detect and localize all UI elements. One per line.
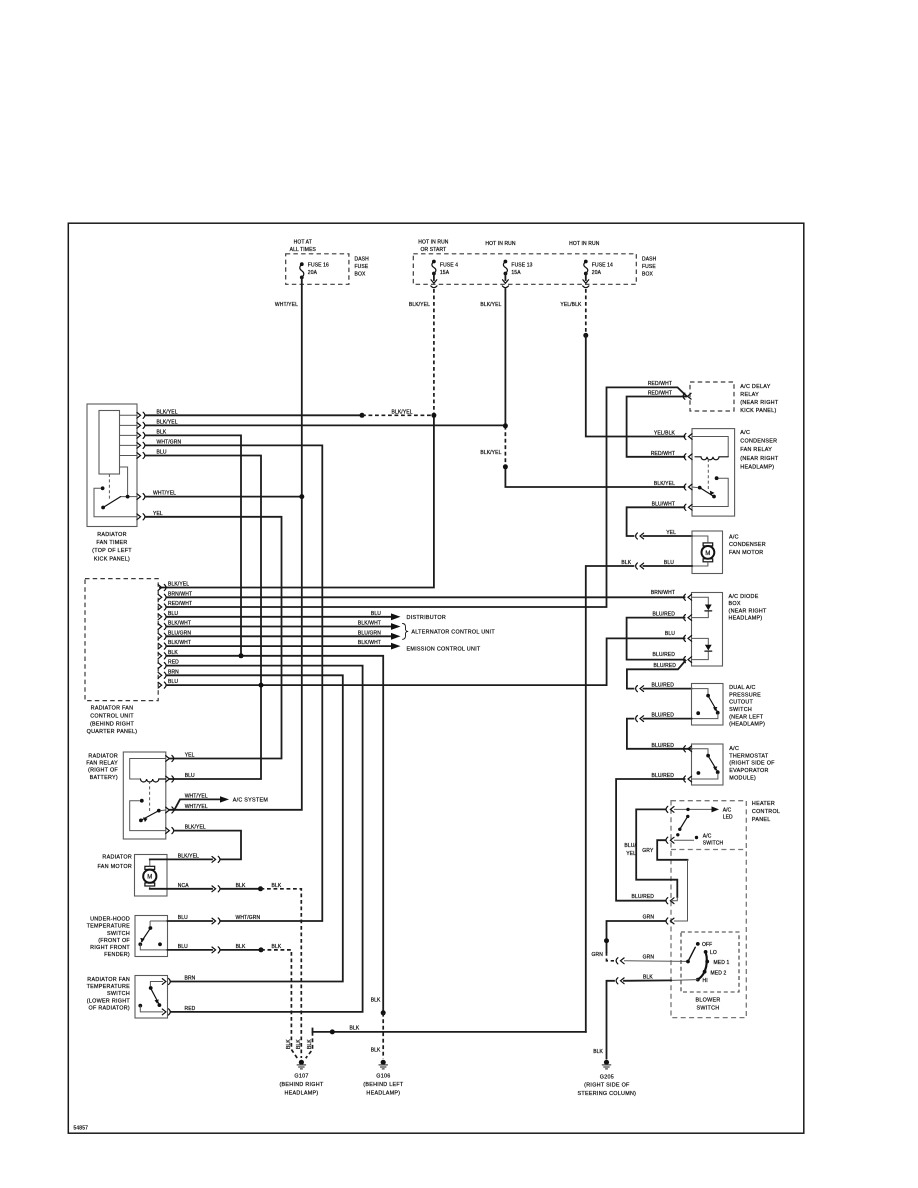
svg-text:BLK/YEL: BLK/YEL — [480, 450, 501, 456]
svg-text:(RIGHT SIDE OF: (RIGHT SIDE OF — [584, 1083, 630, 1089]
svg-text:FAN RELAY: FAN RELAY — [86, 761, 118, 767]
wire timer YEL row7 down to relay YEL — [146, 517, 282, 759]
svg-text:RELAY: RELAY — [740, 392, 759, 398]
relay lever arrowhead — [143, 817, 147, 822]
relay armature dashed — [149, 781, 151, 811]
svg-text:DASH: DASH — [642, 257, 657, 263]
svg-text:BLU/RED: BLU/RED — [651, 713, 674, 719]
junction dot BLU row11 with timer BLU vertical — [259, 683, 264, 688]
svg-text:HI: HI — [703, 978, 708, 984]
blower common dot — [686, 960, 690, 964]
svg-text:A/C: A/C — [740, 430, 750, 436]
pressure switch internals — [692, 689, 709, 694]
arrow row6 — [391, 633, 401, 640]
svg-text:BLU: BLU — [664, 560, 674, 566]
timer internal pin wires — [120, 415, 138, 455]
svg-text:LED: LED — [723, 814, 733, 820]
svg-text:A/C: A/C — [703, 833, 712, 839]
svg-text:BLK: BLK — [307, 1039, 313, 1049]
wire to thermostat top — [627, 719, 692, 749]
condenser relay coil — [695, 457, 728, 460]
svg-text:GRY: GRY — [642, 848, 654, 854]
svg-text:M: M — [705, 551, 710, 557]
svg-text:(TOP OF LEFT: (TOP OF LEFT — [92, 548, 132, 554]
radiator fan motor box — [135, 855, 168, 897]
svg-text:BOX: BOX — [355, 271, 366, 277]
wire GRN thin to blower common — [624, 960, 687, 963]
svg-text:FUSE 13: FUSE 13 — [511, 263, 532, 269]
thermostat pin connectors — [684, 746, 692, 752]
inline connector pressure top — [636, 686, 644, 692]
svg-text:RED/WHT: RED/WHT — [648, 391, 672, 397]
A/C switch lever — [680, 817, 688, 829]
wire cu BLU row11 to A/C diode box BLU — [167, 638, 685, 685]
wire BLU/YEL tail into BLU/RED connector — [672, 897, 677, 901]
svg-text:MED 2: MED 2 — [711, 971, 727, 977]
A/C condenser fan relay box — [692, 429, 735, 516]
svg-text:STEERING COLUMN): STEERING COLUMN) — [578, 1091, 637, 1097]
svg-text:BLK/YEL: BLK/YEL — [392, 409, 413, 415]
svg-text:BLU/: BLU/ — [624, 843, 636, 849]
wire RED/WHT branch to condenser relay coil — [627, 397, 687, 457]
brace to alternator control unit — [403, 624, 409, 640]
wire fuse 13 to A/C condenser fan relay BLK/YEL — [505, 467, 684, 487]
connector under-hood row1 — [212, 918, 220, 924]
svg-text:BLK: BLK — [286, 1039, 292, 1049]
timer switch contact dots — [101, 506, 105, 510]
svg-text:SWITCH: SWITCH — [729, 707, 752, 713]
fuse 13 15A — [504, 260, 508, 264]
svg-text:GRN: GRN — [643, 915, 655, 921]
radiator fan timer box — [87, 404, 137, 527]
svg-text:BRN/WHT: BRN/WHT — [651, 590, 675, 596]
connector at fuse 4 box exit — [433, 274, 435, 281]
wire cu BLK/WHT row7 with arrow — [167, 645, 391, 647]
dash fuse box right (dashed) — [413, 254, 636, 284]
arrow row5 — [391, 623, 401, 630]
arrow to A/C system — [220, 796, 229, 802]
radiator fan relay box — [123, 752, 166, 839]
svg-text:BLU: BLU — [178, 944, 188, 950]
connector motor BLK/YEL — [212, 856, 220, 862]
svg-text:SWITCH: SWITCH — [107, 991, 130, 997]
A/C thermostat box — [692, 744, 724, 785]
svg-text:BLK: BLK — [593, 1049, 603, 1055]
wire relay BLK/YEL down to radiator fan motor — [174, 831, 241, 860]
wire cu BRN/WHT row2 to A/C diode box — [167, 596, 685, 598]
wire NCA BLK to splice — [221, 888, 261, 890]
arrow to distributor — [391, 613, 401, 620]
blower contact arc LO-HI — [698, 952, 707, 980]
fuse 4 15A — [432, 260, 436, 264]
wire BLU/RED into pressure switch — [644, 688, 692, 690]
connector at fuse 14 box exit — [585, 274, 587, 281]
svg-text:G205: G205 — [600, 1075, 614, 1081]
relay internal switch lever — [141, 811, 159, 821]
svg-text:BLU: BLU — [665, 631, 675, 637]
thermostat internals — [692, 749, 709, 754]
connector heater GRN pin — [666, 918, 674, 924]
svg-text:RADIATOR FAN: RADIATOR FAN — [87, 977, 130, 983]
wire NCA BLK dashed to G107 — [261, 889, 302, 1058]
diode symbol 2 — [705, 645, 712, 651]
wire fuse 13 dashed segment — [504, 426, 506, 467]
wire BLU/RED thermostat to heater control panel — [616, 779, 684, 901]
diode internal wires upper — [692, 597, 709, 617]
svg-text:FUSE 16: FUSE 16 — [308, 263, 329, 269]
junction dot uh BLK splice — [259, 947, 264, 952]
svg-text:A/C: A/C — [723, 807, 732, 813]
svg-text:HEADLAMP): HEADLAMP) — [366, 1090, 400, 1096]
junction dot WHT/YEL at fuse16 line — [299, 494, 304, 499]
svg-text:BLK/YEL: BLK/YEL — [178, 853, 199, 859]
wire BLU/RED loop pins2-4 — [627, 618, 685, 660]
diode symbol 1 — [705, 605, 712, 611]
border frame — [68, 223, 804, 1133]
connector motor NCA — [212, 886, 220, 892]
wire under-hood BLU row2 — [168, 949, 213, 951]
GRY internal drop to GRN connector — [674, 860, 688, 921]
svg-text:(BEHIND LEFT: (BEHIND LEFT — [363, 1082, 404, 1088]
wire BLK to splice — [221, 949, 261, 951]
svg-text:A/C: A/C — [729, 746, 739, 752]
wire fuse 4 solid down to control unit row1 — [160, 415, 434, 587]
wire fuse 14 to A/C condenser fan relay YEL/BLK — [586, 335, 685, 436]
svg-text:YEL/BLK: YEL/BLK — [654, 431, 676, 437]
A/C delay relay box (dashed) — [690, 382, 734, 411]
svg-text:MED 1: MED 1 — [714, 960, 730, 966]
wire BLU from motor to connector — [644, 565, 693, 567]
junction dot fuse13 splice — [503, 464, 508, 469]
svg-text:BLK: BLK — [371, 1048, 381, 1054]
fuse 14 20A — [584, 260, 588, 264]
dash fuse box left (dashed) — [286, 254, 349, 284]
motor brush caps — [145, 866, 155, 869]
wire cu RED/WHT row3 up to A/C delay relay and coil — [167, 387, 687, 607]
timer internal output to switch junction — [120, 467, 138, 497]
connector A/C delay relay pin — [683, 393, 691, 399]
svg-text:FUSE 4: FUSE 4 — [440, 263, 458, 269]
svg-text:BLU/RED: BLU/RED — [651, 743, 674, 749]
diode internal wires lower — [692, 638, 709, 659]
svg-text:TEMPERATURE: TEMPERATURE — [87, 984, 131, 990]
svg-text:PRESSURE: PRESSURE — [729, 692, 761, 698]
svg-text:RADIATOR: RADIATOR — [88, 753, 118, 759]
svg-text:EVAPORATOR: EVAPORATOR — [729, 768, 768, 774]
svg-text:A/C SYSTEM: A/C SYSTEM — [233, 798, 269, 804]
svg-text:(HEADLAMP): (HEADLAMP) — [729, 722, 765, 728]
svg-text:OF RADIATOR): OF RADIATOR) — [89, 1006, 131, 1012]
wire YEL into motor — [644, 535, 693, 537]
under-hood temperature switch box — [135, 916, 168, 957]
junction dot bottom BLK splice — [330, 1029, 335, 1034]
svg-text:15A: 15A — [440, 270, 450, 276]
svg-text:BLK: BLK — [296, 1039, 302, 1049]
condenser relay internal contact wires — [692, 478, 728, 506]
svg-text:(FRONT OF: (FRONT OF — [98, 938, 130, 944]
svg-text:CUTOUT: CUTOUT — [729, 700, 753, 706]
heater control panel box (dashed) — [671, 801, 746, 1018]
radiator fan control unit box (dashed) — [85, 579, 158, 701]
svg-text:BLK/YEL: BLK/YEL — [409, 302, 430, 308]
svg-text:DUAL A/C: DUAL A/C — [729, 685, 756, 691]
motor internal leads — [149, 859, 151, 888]
dot on LED line — [686, 808, 689, 811]
svg-text:DISTRIBUTOR: DISTRIBUTOR — [407, 615, 447, 621]
condenser motor brush caps — [703, 543, 713, 546]
svg-text:BLU/GRN: BLU/GRN — [358, 630, 381, 636]
svg-text:FENDER): FENDER) — [104, 952, 130, 958]
svg-text:THERMOSTAT: THERMOSTAT — [729, 753, 769, 759]
wire BLK horizontal to G107 (from A/C condenser fan motor BLK) — [313, 1029, 586, 1032]
svg-text:UNDER-HOOD: UNDER-HOOD — [90, 917, 130, 923]
timer internal switch lever — [103, 497, 121, 508]
relay internal YEL pin wire to coil — [130, 759, 166, 780]
svg-text:BLU: BLU — [371, 611, 381, 617]
svg-text:15A: 15A — [511, 270, 521, 276]
radiator fan timer inner module — [99, 411, 120, 475]
svg-text:YEL/BLK: YEL/BLK — [560, 302, 582, 308]
svg-text:PANEL: PANEL — [752, 817, 771, 823]
svg-text:RED/WHT: RED/WHT — [651, 451, 675, 457]
svg-text:DASH: DASH — [355, 257, 370, 263]
svg-text:HEADLAMP): HEADLAMP) — [729, 616, 763, 622]
svg-text:HOT IN RUN: HOT IN RUN — [485, 241, 516, 247]
svg-text:(NEAR RIGHT: (NEAR RIGHT — [740, 400, 779, 406]
svg-text:KICK PANEL): KICK PANEL) — [740, 408, 776, 414]
svg-text:A/C DIODE: A/C DIODE — [729, 594, 759, 600]
svg-text:BLK/WHT: BLK/WHT — [358, 621, 381, 627]
A/C condenser fan motor box — [692, 531, 723, 574]
svg-text:A/C: A/C — [729, 535, 739, 541]
svg-text:FAN RELAY: FAN RELAY — [740, 447, 772, 453]
svg-text:LO: LO — [710, 950, 717, 956]
dual A/C pressure cutout switch box — [692, 684, 724, 726]
svg-text:EMISSION CONTROL UNIT: EMISSION CONTROL UNIT — [407, 647, 481, 653]
inline connector BLK blower — [616, 978, 624, 984]
blower HI dot — [696, 978, 700, 982]
svg-text:RADIATOR: RADIATOR — [102, 854, 132, 860]
wire under-hood BLU row1 (WHT/GRN) — [168, 920, 213, 922]
svg-text:GRN: GRN — [592, 952, 604, 958]
svg-text:HOT IN RUN: HOT IN RUN — [418, 240, 449, 246]
wire cu BRN row10 down to radiator fan temp switch — [167, 675, 343, 981]
svg-text:BLK/YEL: BLK/YEL — [654, 481, 675, 487]
wire timer BLK/YEL row2 to fuse13 — [146, 424, 506, 426]
timer internal wire to YEL pin — [94, 488, 137, 517]
svg-text:FAN MOTOR: FAN MOTOR — [729, 550, 763, 556]
A/C diode box — [692, 593, 723, 667]
wire YEL/BLK fuse 14 dashed down — [585, 289, 587, 335]
svg-text:20A: 20A — [592, 270, 602, 276]
svg-text:HEADLAMP): HEADLAMP) — [740, 465, 774, 471]
blower lever to OFF — [688, 947, 695, 961]
svg-text:WHT/GRN: WHT/GRN — [236, 915, 261, 921]
svg-text:(NEAR RIGHT: (NEAR RIGHT — [729, 608, 768, 614]
junction dot NCA splice — [258, 886, 263, 891]
svg-text:(BEHIND RIGHT: (BEHIND RIGHT — [90, 721, 134, 727]
svg-text:(NEAR LEFT: (NEAR LEFT — [729, 714, 764, 720]
svg-text:BLK: BLK — [236, 883, 246, 889]
control unit pin connectors — [158, 584, 166, 590]
wire BLK to G205 — [607, 981, 615, 1059]
svg-text:20A: 20A — [308, 270, 318, 276]
svg-text:BLK: BLK — [272, 944, 282, 950]
condenser relay lever arrowhead — [710, 491, 715, 496]
svg-text:FUSE 14: FUSE 14 — [592, 263, 613, 269]
svg-text:HOT IN RUN: HOT IN RUN — [569, 241, 600, 247]
svg-text:BLK: BLK — [272, 883, 282, 889]
junction dot row1 splice — [360, 413, 365, 418]
wire BLU/YEL fuse 4 dashed down — [433, 289, 435, 415]
condenser motor internal leads — [692, 536, 708, 566]
svg-text:CONTROL UNIT: CONTROL UNIT — [90, 714, 134, 720]
ground G107 — [297, 1060, 306, 1069]
svg-text:BOX: BOX — [642, 271, 653, 277]
blower MED2 dot — [703, 970, 707, 974]
wire motor NCA row — [150, 888, 212, 890]
svg-text:BLU: BLU — [185, 773, 195, 779]
wire BLU/YEL loop from A/C LED connector — [636, 809, 677, 897]
svg-text:RED/WHT: RED/WHT — [648, 381, 672, 387]
wire BLK dashed to G107 — [261, 950, 297, 1058]
svg-text:SWITCH: SWITCH — [703, 840, 724, 846]
svg-text:HEADLAMP): HEADLAMP) — [285, 1090, 319, 1096]
connector heater BLU/RED pin — [666, 898, 674, 904]
connector heater A/C LED pin — [666, 806, 674, 812]
svg-text:WHT/YEL: WHT/YEL — [275, 302, 298, 308]
arrow row7 — [391, 643, 401, 650]
svg-text:FAN MOTOR: FAN MOTOR — [98, 864, 132, 870]
wire BLK down to bottom run — [586, 566, 634, 1032]
svg-text:(NEAR RIGHT: (NEAR RIGHT — [740, 456, 779, 462]
timer pin connectors — [137, 412, 145, 418]
wire timer WHT/YEL row6 to fuse 16 line — [146, 496, 302, 498]
wire cu BLK row8 to G106 — [167, 656, 384, 1013]
fuse 16 20A — [300, 262, 304, 266]
svg-text:(RIGHT SIDE OF: (RIGHT SIDE OF — [729, 761, 775, 767]
wire motor BLK/YEL row — [150, 858, 212, 860]
wire timer BLK/YEL row1 dashed part to fuse4 — [362, 414, 434, 416]
svg-text:OFF: OFF — [702, 942, 712, 948]
svg-text:BLK/YEL: BLK/YEL — [168, 582, 189, 588]
blower OFF contact dot — [696, 942, 700, 946]
svg-text:BLOWER: BLOWER — [695, 997, 720, 1003]
svg-text:SWITCH: SWITCH — [697, 1005, 720, 1011]
svg-text:ALTERNATOR CONTROL UNIT: ALTERNATOR CONTROL UNIT — [411, 630, 495, 636]
svg-text:BLK: BLK — [236, 944, 246, 950]
wire GRY loop from A/C switch connector — [657, 840, 687, 860]
wire cu RED row9 down to radiator fan temp switch — [167, 666, 363, 1012]
svg-text:BLK/WHT: BLK/WHT — [358, 640, 381, 646]
diode box pin connectors — [684, 594, 692, 600]
svg-text:MODULE): MODULE) — [729, 775, 756, 781]
inline connector pressure bottom — [636, 716, 644, 722]
connector under-hood row2 — [212, 947, 220, 953]
svg-text:TEMPERATURE: TEMPERATURE — [87, 924, 131, 930]
condenser relay switch dots — [698, 486, 702, 490]
svg-text:BLU/RED: BLU/RED — [653, 663, 676, 669]
junction dot row2 at fuse 13 — [503, 423, 508, 428]
temp switch pin connectors — [162, 978, 170, 984]
svg-text:OR START: OR START — [421, 247, 447, 253]
inline connector GRN blower — [616, 958, 624, 964]
svg-text:BLU/RED: BLU/RED — [632, 894, 655, 900]
blower MED1 dot — [705, 960, 709, 964]
svg-text:BOX: BOX — [729, 601, 741, 607]
ground G106 — [379, 1060, 388, 1069]
motor M circle — [143, 870, 156, 883]
timer internal armature (dashed) — [108, 474, 110, 501]
blower switch box (dashed) — [681, 932, 739, 992]
wire BLU/RED pressure bottom to thermostat — [644, 718, 692, 720]
svg-text:WHT/YEL: WHT/YEL — [185, 804, 208, 810]
svg-text:FUSE: FUSE — [355, 264, 369, 270]
wire BLU/YEL fuse 13 solid down — [504, 289, 506, 426]
svg-text:CONDENSER: CONDENSER — [740, 439, 777, 445]
svg-text:BRN: BRN — [185, 976, 196, 982]
junction dot row1 at fuse 4 — [431, 413, 436, 418]
radiator fan temperature switch box — [135, 976, 168, 1019]
stub wire to A/C system — [174, 799, 220, 810]
svg-text:ALL TIMES: ALL TIMES — [290, 247, 317, 253]
svg-text:RED: RED — [185, 1006, 196, 1012]
connector at fuse 13 box exit — [504, 274, 506, 281]
temp switch internals — [150, 982, 163, 987]
svg-text:HEATER: HEATER — [752, 801, 775, 807]
wire timer WHT/GRN row4 down to under-hood temp switch — [146, 445, 323, 921]
svg-text:RADIATOR FAN: RADIATOR FAN — [91, 706, 134, 712]
relay switch dots — [157, 809, 161, 813]
under-hood switch internals — [150, 921, 167, 926]
junction dot BLK row8 with timer BLK — [239, 653, 244, 658]
inline connector motor BLU/BLK — [636, 563, 644, 569]
condenser motor M circle — [702, 546, 715, 559]
condenser relay pin connectors — [684, 433, 692, 439]
svg-text:CONTROL: CONTROL — [752, 809, 780, 815]
svg-text:BLU: BLU — [178, 915, 188, 921]
svg-text:FUSE: FUSE — [642, 264, 656, 270]
svg-text:M: M — [147, 875, 152, 881]
wire timer BLK/YEL row1 solid part — [146, 414, 363, 416]
relay internal contact wire to BLK/YEL pin — [130, 801, 166, 831]
blower LO dot — [704, 950, 708, 954]
svg-text:RIGHT FRONT: RIGHT FRONT — [90, 945, 130, 951]
svg-text:(LOWER RIGHT: (LOWER RIGHT — [87, 998, 131, 1004]
svg-text:RADIATOR: RADIATOR — [97, 532, 127, 538]
wire BLK from blower HI — [671, 979, 698, 982]
wire cu BLU row4 with arrow to distributor — [167, 616, 391, 618]
connector heater A/C SWITCH pin — [666, 837, 674, 843]
svg-text:QUARTER PANEL): QUARTER PANEL) — [87, 729, 138, 735]
svg-text:FAN TIMER: FAN TIMER — [96, 540, 127, 546]
svg-text:(BEHIND RIGHT: (BEHIND RIGHT — [279, 1082, 323, 1088]
wire BLU/WHT to motor YEL connector — [627, 507, 685, 536]
wire timer BLU row5 down to relay BLU — [146, 456, 262, 780]
condenser relay armature dashed — [707, 459, 709, 489]
wire timer BLK row3 down to control unit BLK row — [146, 435, 242, 655]
wire WHT/YEL fuse 16 down to radiator fan relay — [170, 277, 302, 809]
wire BLK dashed down to G107 — [306, 1032, 313, 1058]
relay coil — [141, 779, 166, 782]
wire BLK control-unit row8 dashed tail to G106 — [381, 1010, 386, 1015]
condenser relay switch lever — [700, 488, 714, 497]
svg-text:NCA: NCA — [178, 883, 189, 889]
wire GRN dashed to connector — [607, 952, 615, 961]
relay pin connectors — [166, 755, 174, 761]
junction dot GRN splice — [604, 938, 609, 943]
A/C switch line — [674, 839, 694, 841]
